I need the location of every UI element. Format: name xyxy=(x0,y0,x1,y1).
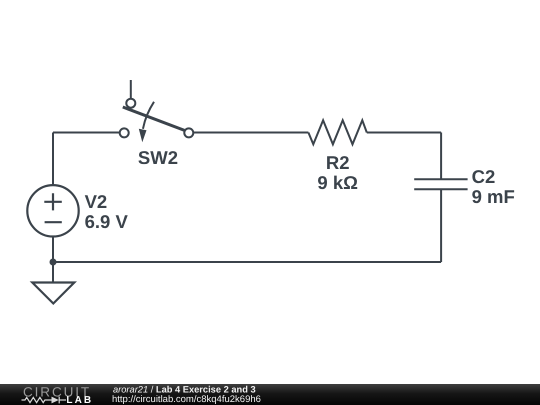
svg-text:R2: R2 xyxy=(326,152,350,173)
svg-text:SW2: SW2 xyxy=(138,147,178,168)
svg-text:http://circuitlab.com/c8kq4fu2: http://circuitlab.com/c8kq4fu2k69h6 xyxy=(112,394,261,405)
svg-text:C2: C2 xyxy=(472,166,496,187)
svg-text:LAB: LAB xyxy=(66,395,93,405)
svg-text:V2: V2 xyxy=(85,191,108,212)
svg-text:9 mF: 9 mF xyxy=(472,186,515,207)
svg-text:arorar21 / Lab 4 Exercise 2 an: arorar21 / Lab 4 Exercise 2 and 3 xyxy=(113,384,256,394)
svg-text:9 kΩ: 9 kΩ xyxy=(317,172,358,193)
svg-text:6.9 V: 6.9 V xyxy=(85,211,129,232)
